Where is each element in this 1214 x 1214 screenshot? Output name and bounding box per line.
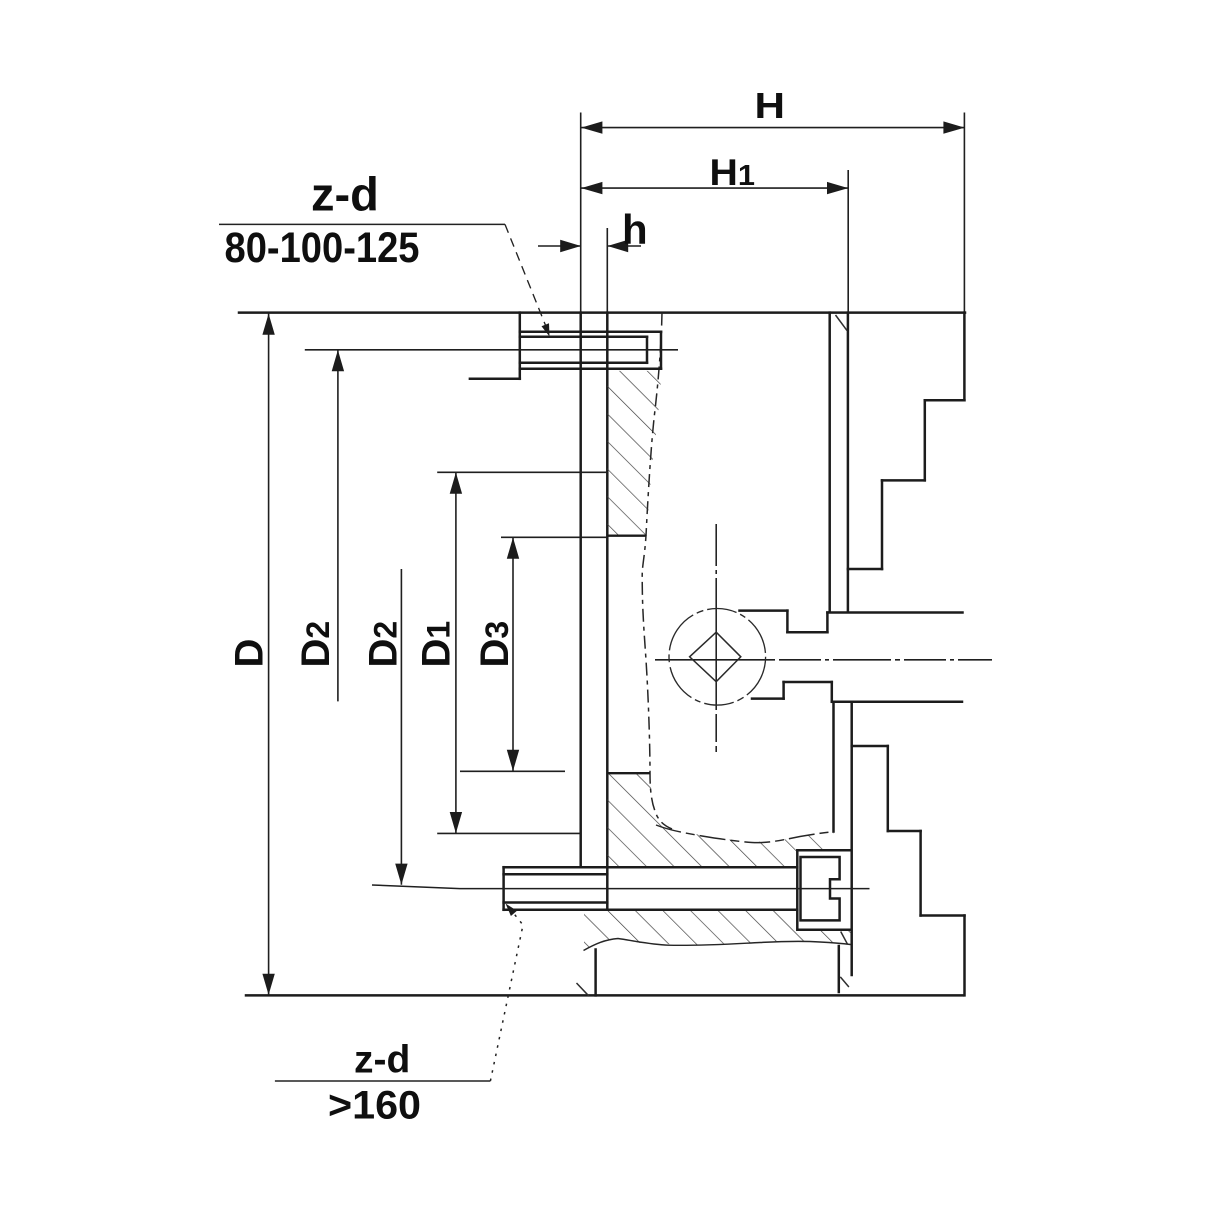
screw left end cap bbox=[519, 332, 522, 369]
H1 right extension line bbox=[847, 170, 849, 313]
lower guideway wall left bbox=[832, 702, 835, 832]
top screw axis / D2 upper extension bbox=[305, 349, 678, 351]
H left extension line bbox=[580, 113, 582, 313]
backplate hub lower hatched section bbox=[607, 773, 833, 867]
socket pitch circle bbox=[669, 609, 766, 706]
H1 arrow left bbox=[581, 182, 602, 194]
D1 lower extension line bbox=[437, 832, 581, 834]
H1 dimension line bbox=[581, 187, 848, 189]
flange rim lower vertical bbox=[519, 369, 522, 379]
front face notch right vertical bbox=[826, 613, 829, 633]
window bottom edge at plate hub bbox=[607, 772, 650, 774]
D arrow top bbox=[262, 314, 274, 335]
lower jaw step top bbox=[852, 745, 888, 748]
screw thread top line bbox=[520, 336, 647, 339]
leader horizontal line bbox=[219, 223, 505, 225]
dashed break curve of backplate hub bbox=[642, 313, 672, 829]
lower hatched band below stud bbox=[584, 910, 851, 951]
h left arrow tail bbox=[538, 245, 581, 247]
bottom stud axis / D2 lower extension bbox=[372, 885, 870, 889]
body front face lower left part bbox=[752, 697, 784, 700]
svg-text:h: h bbox=[622, 206, 648, 253]
lower jaw right face bbox=[963, 916, 966, 996]
H dimension line bbox=[581, 127, 965, 129]
h second extension line bbox=[606, 228, 608, 313]
screw outer top line bbox=[520, 331, 661, 334]
svg-text:z-d: z-d bbox=[354, 1039, 410, 1082]
D2 lower arrow bbox=[395, 864, 407, 885]
lower jaw step2 horizontal bbox=[921, 914, 965, 917]
svg-text:>160: >160 bbox=[328, 1084, 421, 1128]
stud head bottom line bbox=[504, 909, 798, 912]
lower bump right vertical bbox=[831, 682, 834, 702]
backplate hub upper hatched section bbox=[607, 371, 661, 536]
front face notch bottom bbox=[787, 631, 827, 634]
leader top arrowhead bbox=[542, 323, 550, 336]
screw outer bottom line bbox=[520, 367, 661, 370]
lower slot end chamfer bbox=[840, 977, 849, 987]
wavy break line above stud bbox=[656, 825, 834, 843]
upper guideway wall left bbox=[828, 313, 831, 611]
svg-text:80-100-125: 80-100-125 bbox=[225, 225, 420, 272]
H arrow right bbox=[943, 121, 964, 133]
upper jaw step2 vertical bbox=[881, 480, 884, 569]
lower jaw step1 horizontal bbox=[888, 830, 921, 833]
D arrow bottom bbox=[262, 974, 274, 995]
body front face lower right part bbox=[832, 701, 962, 704]
upper jaw step3 horizontal bbox=[848, 568, 882, 571]
leader diagonal dashed bbox=[505, 224, 547, 329]
D2 upper dimension line bbox=[337, 350, 339, 701]
svg-text:D2: D2 bbox=[361, 621, 405, 668]
stud left end cap bbox=[502, 867, 505, 910]
slotted end outer box bbox=[797, 850, 851, 930]
lower bump top bbox=[784, 681, 832, 684]
body front face upper left part bbox=[740, 609, 788, 612]
H arrow left bbox=[581, 121, 602, 133]
svg-text:H: H bbox=[755, 85, 786, 126]
D3 arrow top bbox=[507, 538, 519, 559]
lower leader horizontal line bbox=[275, 1080, 491, 1082]
h right arrow tail bbox=[607, 245, 641, 247]
body top edge / D top extension bbox=[239, 311, 965, 314]
bottom boss right vertical bbox=[838, 946, 841, 992]
lower guideway wall right (long) bbox=[850, 702, 853, 975]
lower jaw step1 vertical bbox=[887, 746, 890, 831]
lower leader dotted diagonal bbox=[490, 905, 523, 1081]
D1 arrow top bbox=[450, 473, 462, 494]
lower jaw step2 vertical bbox=[919, 831, 922, 916]
D2 upper arrow bbox=[332, 350, 344, 371]
stud head top line bbox=[504, 866, 798, 869]
D3 upper extension line bbox=[501, 536, 607, 538]
socket square bbox=[690, 632, 741, 682]
upper jaw step2 horizontal bbox=[882, 479, 925, 482]
D2 lower dimension line bbox=[400, 569, 402, 885]
flange rim upper vertical bbox=[519, 313, 522, 332]
socket vertical centerline lower bbox=[715, 706, 717, 754]
upper slot corner chamfer bbox=[836, 315, 848, 331]
upper jaw step1 horizontal bbox=[925, 399, 965, 402]
upper guideway wall right / H1 extension lower part bbox=[847, 313, 850, 611]
screw thread bottom line bbox=[520, 362, 647, 365]
backplate left face bbox=[579, 313, 582, 867]
stud head inner top line bbox=[504, 873, 608, 876]
svg-text:D3: D3 bbox=[473, 621, 517, 668]
lower bump left vertical bbox=[782, 682, 785, 699]
D3 lower extension line bbox=[460, 770, 565, 772]
svg-text:z-d: z-d bbox=[311, 168, 379, 221]
window top edge at plate hub bbox=[607, 535, 646, 537]
D1 upper extension line bbox=[437, 471, 608, 473]
main chuck axis dash-dot part bbox=[770, 659, 992, 661]
svg-text:D: D bbox=[228, 639, 272, 668]
body front face upper right part bbox=[827, 611, 962, 614]
stud head inner bottom line bbox=[504, 901, 608, 904]
body bottom edge / D bottom extension bbox=[246, 994, 963, 997]
upper jaw right face bbox=[963, 313, 966, 401]
D dimension line bbox=[268, 314, 270, 996]
backplate right face bbox=[606, 313, 609, 910]
H right extension line bbox=[963, 113, 965, 313]
wavy break line below stud bbox=[584, 939, 851, 951]
svg-text:D2: D2 bbox=[294, 621, 338, 668]
screw inner end vertical bbox=[646, 337, 649, 363]
H1 arrow right bbox=[827, 182, 848, 194]
h arrow right bbox=[608, 240, 629, 252]
slotted end inner profile bbox=[801, 857, 840, 920]
D3 arrow bottom bbox=[507, 750, 519, 771]
bottom boss corner tick bbox=[577, 983, 590, 996]
D1 arrow bottom bbox=[450, 812, 462, 833]
screw outer end vertical bbox=[660, 332, 663, 369]
socket vertical centerline upper bbox=[715, 524, 717, 601]
flange rim bottom shelf bbox=[470, 378, 520, 381]
D1 dimension line bbox=[455, 473, 457, 834]
slotted stud end chamfer bbox=[841, 932, 848, 944]
lower leader arrowhead bbox=[506, 904, 518, 917]
D3 dimension line bbox=[512, 538, 514, 772]
bottom boss left vertical bbox=[594, 950, 597, 996]
upper jaw step1 vertical bbox=[924, 400, 927, 480]
socket vertical centerline middle bbox=[715, 601, 717, 706]
front face notch left vertical bbox=[786, 611, 789, 633]
h arrow left bbox=[560, 240, 581, 252]
main chuck axis solid part bbox=[655, 659, 770, 661]
svg-text:D1: D1 bbox=[414, 621, 458, 668]
